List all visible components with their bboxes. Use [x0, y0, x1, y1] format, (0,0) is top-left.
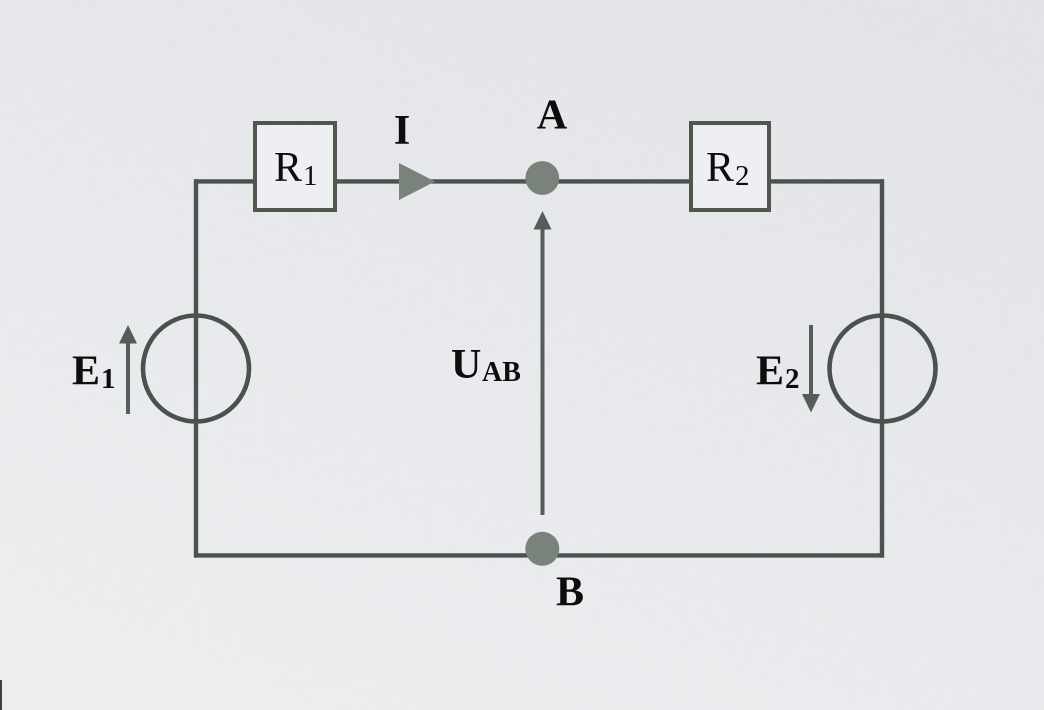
svg-text:U: U [451, 342, 481, 388]
node B [525, 532, 559, 566]
svg-text:2: 2 [785, 363, 800, 395]
svg-text:B: B [556, 570, 584, 616]
node A [525, 161, 559, 195]
label E2 [756, 349, 800, 396]
current direction arrow [399, 163, 435, 200]
E2 polarity arrow [802, 325, 820, 413]
E1 polarity arrow [119, 325, 137, 414]
label I [394, 108, 410, 154]
resistor R1 [255, 123, 335, 210]
svg-text:1: 1 [303, 160, 318, 192]
svg-text:AB: AB [482, 357, 521, 388]
label R2 [706, 145, 750, 192]
svg-text:R: R [706, 145, 734, 191]
wire bottom segment [194, 553, 884, 557]
label B [556, 570, 584, 616]
wire right segment [880, 179, 884, 557]
wire left segment [194, 179, 198, 557]
wire top-right segment [769, 179, 884, 183]
svg-text:R: R [274, 145, 302, 191]
voltage arrow UAB [534, 211, 552, 515]
resistor R2 [691, 123, 769, 210]
wire top-left segment [194, 179, 257, 183]
label UAB [451, 342, 521, 388]
svg-text:2: 2 [735, 160, 750, 192]
label R1 [274, 145, 318, 192]
label E1 [72, 349, 116, 396]
source E2 [830, 316, 936, 422]
svg-text:I: I [394, 108, 410, 154]
source E1 [143, 316, 249, 422]
label A [537, 93, 568, 139]
svg-text:E: E [756, 349, 784, 395]
svg-text:1: 1 [101, 363, 116, 395]
svg-text:A: A [537, 93, 568, 139]
wire top-middle segment [335, 179, 691, 183]
svg-text:E: E [72, 349, 100, 395]
